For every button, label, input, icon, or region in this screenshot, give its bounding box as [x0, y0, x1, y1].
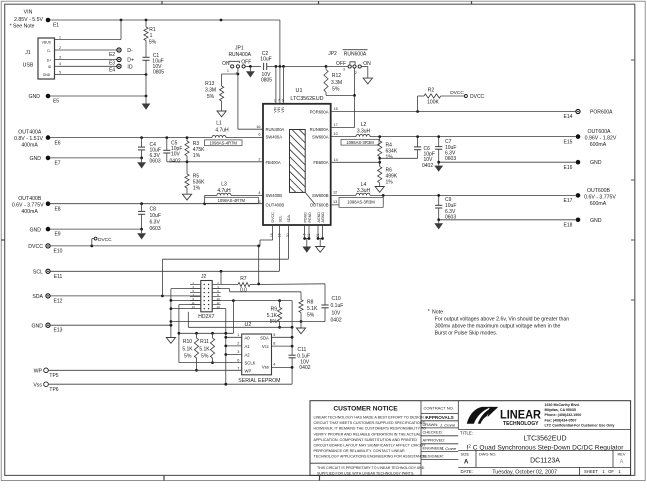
svg-text:SERIAL EEPROM: SERIAL EEPROM: [238, 378, 280, 384]
svg-text:D-: D-: [127, 48, 133, 54]
svg-text:E18: E18: [564, 222, 573, 228]
svg-text:2: 2: [237, 342, 239, 346]
svg-text:HD2X7: HD2X7: [198, 314, 214, 320]
svg-text:0805: 0805: [261, 77, 272, 83]
svg-text:VBUS: VBUS: [42, 41, 52, 45]
svg-text:0.6V - 3.775V: 0.6V - 3.775V: [12, 203, 44, 209]
svg-text:PGND: PGND: [304, 212, 308, 223]
capacitor C5: [163, 138, 182, 165]
svg-text:5%: 5%: [149, 40, 157, 46]
ground at C7: [434, 162, 443, 172]
svg-text:15: 15: [334, 107, 338, 111]
terminal E6 OUT400A: [14, 130, 61, 149]
svg-text:DESIGNER:: DESIGNER:: [423, 454, 444, 459]
svg-text:E3: E3: [109, 61, 115, 67]
resistor R6: [378, 166, 398, 186]
svg-text:GND: GND: [590, 160, 602, 166]
svg-text:AGND: AGND: [321, 212, 325, 223]
svg-text:GND: GND: [43, 73, 51, 77]
svg-text:ID: ID: [127, 64, 132, 70]
ground at R13: [217, 101, 226, 117]
svg-text:VIN: VIN: [24, 10, 33, 16]
resistor R4: [378, 137, 398, 167]
svg-text:CONTRACT NO.: CONTRACT NO.: [424, 405, 454, 410]
svg-text:5%: 5%: [307, 312, 315, 318]
svg-text:TP5: TP5: [49, 373, 58, 379]
capacitor C6: [380, 137, 435, 169]
svg-text:SCL: SCL: [33, 270, 43, 276]
svg-text:J. Crane: J. Crane: [440, 446, 457, 451]
svg-text:L2: L2: [361, 122, 367, 128]
wire VIN rail: [50, 19, 280, 67]
svg-text:PGND: PGND: [308, 212, 312, 223]
svg-text:3: 3: [59, 55, 61, 59]
terminal E4 ID: [59, 64, 133, 73]
svg-text:1%: 1%: [386, 180, 394, 186]
svg-text:17: 17: [334, 123, 338, 127]
svg-text:400mA: 400mA: [21, 143, 38, 149]
svg-text:WP: WP: [34, 369, 43, 375]
wire VIN pins to chip top: [274, 66, 284, 103]
svg-text:0402: 0402: [299, 365, 310, 371]
svg-text:9: 9: [282, 99, 284, 103]
svg-text:U1: U1: [296, 88, 303, 94]
svg-text:TP6: TP6: [49, 387, 58, 393]
svg-text:E16: E16: [564, 165, 573, 171]
svg-text:3: 3: [343, 68, 345, 72]
svg-text:1: 1: [274, 99, 276, 103]
svg-text:POR600A: POR600A: [590, 110, 613, 116]
svg-text:SDA: SDA: [32, 294, 43, 300]
svg-text:SIZE: SIZE: [461, 451, 470, 456]
wire DVCC pullup rail: [250, 245, 325, 286]
svg-text:D+: D+: [127, 58, 134, 64]
title cell: [458, 429, 630, 451]
wire SDA net: [50, 225, 288, 297]
svg-text:LTC3562EUD: LTC3562EUD: [523, 436, 566, 443]
svg-text:CUSTOMER NOTICE: CUSTOMER NOTICE: [333, 406, 398, 413]
resistor R3: [185, 138, 205, 162]
ground at C9: [434, 220, 443, 230]
capacitor C10: [301, 284, 343, 324]
svg-text:A2: A2: [245, 352, 251, 357]
capacitor C1: [142, 41, 164, 97]
svg-text:VERIFY PROPER AND RELIABLE OPE: VERIFY PROPER AND RELIABLE OPERATION IN …: [314, 432, 422, 436]
svg-text:R7: R7: [240, 276, 247, 282]
svg-text:10uF: 10uF: [260, 57, 271, 63]
svg-text:13: 13: [333, 200, 337, 204]
capacitor C4: [138, 138, 161, 165]
wire WP row TP5: [48, 369, 241, 371]
svg-text:DWG NO.: DWG NO.: [479, 451, 497, 456]
svg-text:WP: WP: [245, 369, 252, 374]
svg-text:JP1: JP1: [235, 46, 244, 52]
svg-text:SW400A: SW400A: [266, 135, 283, 140]
wire OUT400B rail: [50, 202, 263, 205]
svg-text:5: 5: [59, 70, 61, 74]
svg-text:PERFORMANCE OR RELIABILITY. C: PERFORMANCE OR RELIABILITY. CONTACT LINE…: [314, 449, 406, 453]
svg-text:0.8V - 1.51V: 0.8V - 1.51V: [14, 136, 43, 142]
wire DVCC net: [50, 225, 273, 247]
svg-text:5.1K: 5.1K: [199, 346, 210, 352]
svg-text:A: A: [619, 459, 623, 465]
date cell: [461, 467, 622, 475]
svg-text:E5: E5: [53, 99, 59, 105]
svg-text:SW600B: SW600B: [312, 193, 329, 198]
svg-text:CIRCUIT THAT MEETS CUSTOMER-SU: CIRCUIT THAT MEETS CUSTOMER-SUPPLIED SPE…: [314, 421, 426, 425]
title block: [310, 401, 631, 476]
node DVCC flag right: [450, 90, 484, 100]
note text: [428, 309, 570, 337]
svg-text:R12: R12: [332, 73, 341, 79]
svg-text:3.3M: 3.3M: [331, 80, 342, 86]
svg-text:1098AS-3R3M: 1098AS-3R3M: [346, 140, 374, 145]
terminal E12 SDA: [32, 294, 62, 305]
svg-text:Burst or Pulse Skip modes.: Burst or Pulse Skip modes.: [435, 331, 498, 337]
svg-text:DVCC: DVCC: [271, 212, 275, 223]
svg-text:OUT600B: OUT600B: [310, 203, 329, 208]
terminal E5 GND: [28, 94, 147, 105]
svg-text:GND: GND: [31, 323, 43, 329]
svg-text:5%: 5%: [207, 94, 215, 100]
svg-text:J1: J1: [25, 50, 31, 56]
svg-text:E7: E7: [54, 160, 60, 166]
svg-text:D+: D+: [47, 58, 51, 62]
Linear Technology logo: [467, 403, 615, 428]
svg-text:USB: USB: [23, 63, 34, 69]
svg-text:Vss: Vss: [33, 383, 42, 389]
wire RUN400A: [238, 74, 263, 129]
svg-text:10uF: 10uF: [150, 213, 161, 219]
inductor L3: [205, 182, 263, 204]
svg-text:CIRCUIT BOARD LAYOUT MAY SIGNI: CIRCUIT BOARD LAYOUT MAY SIGNIFICANTLY A…: [314, 443, 427, 447]
svg-text:J. Crane: J. Crane: [439, 423, 456, 428]
svg-text:3.3M: 3.3M: [205, 88, 216, 94]
svg-text:0805: 0805: [153, 69, 164, 75]
op-amp U2 serial EEPROM: [238, 322, 280, 384]
svg-text:D-: D-: [47, 49, 51, 53]
svg-text:DATE:: DATE:: [461, 469, 473, 474]
resistor R1: [144, 20, 157, 46]
wire GND E18 row: [437, 218, 575, 221]
svg-text:1098AS-4R7M: 1098AS-4R7M: [209, 140, 237, 145]
value box L4: [339, 197, 383, 207]
terminal E7 GND: [29, 156, 143, 167]
svg-text:0.1uF: 0.1uF: [331, 303, 344, 309]
wire RUN600A: [331, 68, 356, 128]
ground at R8 C10: [296, 322, 305, 334]
terminal E2 D-: [59, 48, 134, 58]
svg-text:OUT600A: OUT600A: [587, 129, 611, 135]
svg-text:2: 2: [258, 157, 260, 161]
customer notice: [310, 406, 428, 476]
terminal E3 D+: [59, 57, 134, 66]
svg-text:2: 2: [59, 46, 61, 50]
svg-text:OUT400A: OUT400A: [18, 130, 42, 136]
jumper JP2 RUN600A: [328, 50, 371, 75]
svg-text:R11: R11: [200, 339, 209, 345]
svg-text:GND: GND: [590, 218, 602, 224]
wire J2 left maze: [170, 289, 302, 363]
connector J1 USB: [23, 35, 61, 79]
svg-text:5%: 5%: [201, 354, 209, 360]
svg-text:Milpitas, CA 95035: Milpitas, CA 95035: [545, 408, 576, 412]
resistor R8: [212, 289, 318, 323]
capacitor C7: [435, 135, 456, 162]
wire SCLK row: [179, 362, 242, 364]
svg-text:E13: E13: [54, 328, 63, 334]
svg-text:400mA: 400mA: [21, 209, 38, 215]
svg-text:E14: E14: [564, 114, 573, 120]
svg-text:LINEAR TECHNOLOGY HAS MADE A B: LINEAR TECHNOLOGY HAS MADE A BEST EFFORT…: [314, 416, 428, 420]
wire J2 pin14 bus: [212, 309, 226, 385]
capacitor C9: [435, 194, 456, 221]
resistor R5: [185, 162, 205, 194]
svg-text:THIS CIRCUIT IS PROPRIETARY TO: THIS CIRCUIT IS PROPRIETARY TO LINEAR TE…: [317, 466, 425, 470]
ground at R6: [375, 187, 384, 193]
svg-text:Tuesday, October 02, 2007: Tuesday, October 02, 2007: [492, 469, 557, 475]
resistor R10: [182, 333, 198, 371]
svg-text:E10: E10: [54, 248, 63, 254]
svg-text:SCL: SCL: [279, 216, 283, 223]
svg-text:300mv above the maximum output: 300mv above the maximum output voltage w…: [435, 324, 561, 330]
wire AGND pins: [317, 225, 324, 240]
svg-text:2.85V - 5.5V: 2.85V - 5.5V: [14, 17, 43, 23]
svg-text:Vcc: Vcc: [262, 344, 269, 349]
svg-text:4: 4: [273, 363, 275, 367]
svg-text:R13: R13: [205, 81, 214, 87]
svg-text:DRAWN:: DRAWN:: [423, 422, 439, 427]
terminal E16 GND: [564, 160, 602, 171]
capacitor C8: [138, 204, 161, 233]
svg-text:E17: E17: [564, 198, 573, 204]
svg-text:0.96V - 1.82V: 0.96V - 1.82V: [585, 135, 617, 141]
svg-text:SUPPLIED FOR USE WITH LINEAR T: SUPPLIED FOR USE WITH LINEAR TECHNOLOGY …: [317, 471, 414, 475]
wire U2 address pins bus: [224, 333, 275, 371]
svg-text:R10: R10: [183, 339, 192, 345]
wire SCL net: [50, 225, 279, 273]
wire GND net: [50, 324, 171, 326]
svg-text:16: 16: [256, 125, 260, 129]
svg-text:R2: R2: [428, 88, 435, 94]
svg-text:J2: J2: [201, 274, 207, 280]
size dwg rev cells: [458, 450, 630, 467]
wire JP1 to C2 row: [245, 65, 261, 68]
svg-text:Vss: Vss: [262, 365, 269, 370]
wire J2 pin10 SDA branch: [212, 299, 293, 355]
svg-text:0402: 0402: [331, 317, 342, 323]
svg-text:5%: 5%: [332, 87, 340, 93]
wire R10 R11 top rail: [178, 301, 234, 335]
svg-text:0402: 0402: [422, 163, 433, 169]
svg-text:SDA: SDA: [287, 215, 291, 223]
svg-text:R8: R8: [307, 300, 314, 306]
inductor L4: [331, 182, 576, 197]
resistor R11: [199, 333, 214, 364]
svg-text:600mA: 600mA: [590, 201, 607, 207]
svg-text:1%: 1%: [193, 153, 201, 159]
ground at JP2: [361, 67, 372, 84]
svg-text:E4: E4: [109, 67, 115, 73]
svg-text:JP2: JP2: [328, 51, 337, 57]
svg-text:1%: 1%: [386, 154, 394, 160]
svg-text:DVCC: DVCC: [28, 244, 43, 250]
svg-text:6.3V: 6.3V: [150, 220, 161, 226]
svg-text:4.7uH: 4.7uH: [215, 127, 229, 133]
svg-text:3.3uH: 3.3uH: [357, 129, 371, 135]
svg-text:E12: E12: [54, 298, 63, 304]
svg-text:0603: 0603: [150, 158, 161, 164]
svg-text:A: A: [464, 459, 469, 465]
svg-text:1: 1: [227, 69, 229, 73]
wire J1 pin5 GND: [59, 73, 148, 76]
svg-text:L1: L1: [216, 121, 222, 127]
svg-text:E15: E15: [564, 139, 573, 145]
svg-text:10V: 10V: [332, 310, 342, 316]
terminal E8 OUT400B: [12, 196, 61, 215]
svg-text:E6: E6: [54, 141, 60, 147]
svg-text:E2: E2: [109, 52, 115, 58]
svg-text:6: 6: [237, 358, 239, 362]
svg-text:GND: GND: [28, 94, 40, 100]
wire R9 bottom tie: [188, 312, 293, 329]
svg-text:L4: L4: [361, 182, 367, 188]
terminal E9 GND: [29, 227, 143, 238]
svg-text:CHECKED:: CHECKED:: [423, 430, 443, 435]
svg-text:SW400B: SW400B: [266, 193, 283, 198]
inductor L2: [331, 122, 576, 145]
svg-text:LTC3562EUD: LTC3562EUD: [290, 96, 323, 102]
svg-text:SDA: SDA: [260, 335, 269, 340]
svg-text:DVCC: DVCC: [98, 237, 112, 243]
svg-text:A1: A1: [245, 344, 251, 349]
svg-text:A0: A0: [245, 335, 251, 340]
ground at C8: [137, 229, 146, 239]
svg-text:OUT400B: OUT400B: [266, 203, 285, 208]
svg-text:1098AS-4R7M: 1098AS-4R7M: [218, 198, 246, 203]
svg-text:100K: 100K: [427, 100, 439, 106]
svg-text:R9: R9: [271, 306, 278, 312]
terminal E18 GND: [564, 218, 602, 229]
svg-text:5: 5: [273, 333, 275, 337]
svg-text:0603: 0603: [445, 156, 456, 162]
wire FB600A: [331, 161, 380, 163]
svg-text:OF: OF: [608, 469, 614, 474]
wire Vss rail TP6: [48, 383, 292, 386]
terminal E15 OUT600A: [564, 129, 617, 148]
svg-text:FB400A: FB400A: [266, 160, 281, 165]
svg-text:10: 10: [334, 132, 338, 136]
terminal E14 POR600A: [564, 109, 614, 120]
svg-text:DVCC: DVCC: [450, 90, 464, 96]
svg-text:LTC Confidential-For Customer: LTC Confidential-For Customer Use Only: [545, 424, 615, 428]
wire FB400A: [167, 160, 263, 163]
svg-text:0.6V - 3.775V: 0.6V - 3.775V: [584, 194, 616, 200]
svg-text:0.0: 0.0: [240, 288, 247, 294]
svg-text:*: *: [428, 309, 430, 315]
svg-text:RUN600A: RUN600A: [310, 127, 329, 132]
svg-text:1630 McCarthy Blvd.: 1630 McCarthy Blvd.: [545, 403, 580, 407]
svg-text:E9: E9: [54, 232, 60, 238]
approvals column: [421, 405, 458, 459]
op-amp U1 LTC3562EUD: [256, 88, 337, 237]
wire OUT400A rail: [50, 136, 212, 139]
svg-text:5%: 5%: [184, 354, 192, 360]
terminal E17 OUT600B: [564, 188, 617, 207]
svg-text:5.1K: 5.1K: [182, 346, 193, 352]
svg-text:* See Note: * See Note: [9, 24, 34, 30]
wire J1 pin1 to VIN: [59, 20, 122, 40]
ground at JP1: [246, 66, 255, 77]
svg-text:DVCC: DVCC: [470, 94, 485, 100]
svg-text:OUT600B: OUT600B: [587, 188, 611, 194]
wire U2 Vss pin: [272, 366, 294, 369]
capacitor C2: [260, 51, 326, 83]
svg-text:Phone: (408)432-1900: Phone: (408)432-1900: [545, 413, 582, 417]
svg-text:VIN: VIN: [281, 106, 285, 112]
svg-text:0603: 0603: [150, 226, 161, 232]
svg-text:3: 3: [237, 350, 239, 354]
resistor R7: [238, 276, 250, 294]
svg-text:600mA: 600mA: [590, 142, 607, 148]
svg-text:For output voltages above 2.6v: For output voltages above 2.6v, Vin shou…: [435, 317, 570, 323]
wire OUT600B pin13: [331, 195, 384, 205]
svg-text:APPLICATION. COMPONENT SUBSTI: APPLICATION. COMPONENT SUBSTITUTION AND …: [314, 438, 418, 442]
svg-text:E11: E11: [54, 274, 63, 280]
svg-text:HOWEVER, IT REMAINS THE CUSTOM: HOWEVER, IT REMAINS THE CUSTOMER'S RESPO…: [314, 427, 427, 431]
wire POR600A to E14: [331, 110, 576, 113]
resistor R2: [418, 88, 465, 112]
terminal E11 SCL: [33, 269, 63, 280]
svg-text:4: 4: [258, 191, 260, 195]
svg-text:1: 1: [150, 33, 153, 39]
ground PGND: [302, 239, 311, 253]
VIN terminal E1: [9, 10, 59, 30]
svg-text:1%: 1%: [193, 186, 201, 192]
inductor L1: [205, 121, 264, 146]
svg-text:FB600A: FB600A: [313, 160, 328, 165]
svg-text:C11: C11: [298, 347, 307, 353]
svg-text:RUN400A: RUN400A: [266, 127, 285, 132]
svg-text:6: 6: [258, 132, 260, 136]
terminal TP6 Vss: [33, 382, 58, 393]
svg-text:5%: 5%: [270, 319, 278, 325]
svg-text:4: 4: [59, 62, 61, 66]
svg-text:1: 1: [59, 35, 61, 39]
ground at R5: [182, 194, 191, 200]
svg-text:10V: 10V: [171, 152, 181, 158]
svg-text:TECHNOLOGY: TECHNOLOGY: [503, 421, 539, 427]
svg-text:GND: GND: [29, 227, 41, 233]
wire SCL to J2 pin2: [221, 271, 238, 284]
svg-text:0.1uF: 0.1uF: [297, 353, 310, 359]
svg-text:RUN600A: RUN600A: [344, 51, 367, 57]
svg-text:TECHNOLOGY APPLICATIONS ENGINE: TECHNOLOGY APPLICATIONS ENGINEERING FOR …: [314, 454, 427, 458]
svg-text:E1: E1: [53, 22, 59, 28]
terminal E13 GND: [31, 323, 62, 334]
wire GND E16 row: [437, 161, 575, 164]
svg-text:2: 2: [355, 71, 357, 75]
svg-text:POR600A: POR600A: [310, 109, 329, 114]
svg-text:Fax: (408)434-0507: Fax: (408)434-0507: [545, 418, 577, 422]
svg-text:7: 7: [278, 99, 280, 103]
svg-text:L3: L3: [221, 182, 227, 188]
svg-text:5.1K: 5.1K: [307, 306, 318, 312]
ground AGND: [316, 239, 325, 253]
svg-text:REV: REV: [618, 451, 626, 456]
svg-text:18: 18: [270, 233, 274, 237]
svg-text:AGND: AGND: [317, 212, 321, 223]
